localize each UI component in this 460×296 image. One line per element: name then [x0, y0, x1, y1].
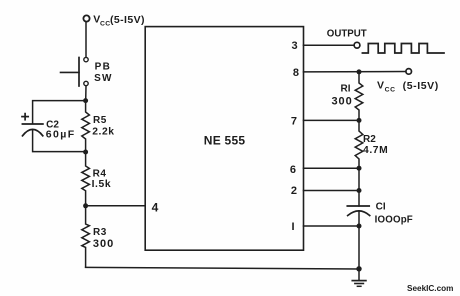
svg-text:8: 8 — [293, 67, 299, 79]
svg-text:CI: CI — [376, 201, 386, 212]
node pin8 junction — [357, 69, 362, 74]
svg-text:RI: RI — [341, 84, 351, 95]
node pin6 junction — [357, 166, 362, 171]
node pin7 junction — [357, 118, 362, 123]
node ground rail junction — [356, 266, 361, 271]
terminal Vcc right — [406, 69, 412, 75]
resistor R5 (2.2k) — [82, 101, 90, 152]
svg-text:IOOOpF: IOOOpF — [375, 214, 413, 225]
svg-text:NE 555: NE 555 — [204, 133, 246, 147]
svg-text:PB: PB — [95, 61, 112, 72]
node B junction R5/R4/C2 — [83, 150, 88, 155]
svg-text:R4: R4 — [93, 168, 107, 179]
svg-text:SeekIC.com: SeekIC.com — [407, 284, 453, 293]
svg-text:3: 3 — [291, 40, 297, 52]
wire bottom rail — [86, 267, 359, 269]
resistor R4 (1.5k) — [82, 152, 90, 206]
svg-text:I: I — [291, 221, 294, 233]
wire node C to pin 4 — [86, 205, 146, 207]
capacitor C1 top plate — [347, 205, 369, 207]
svg-text:300: 300 — [93, 238, 114, 250]
capacitor C1 bottom curved plate — [348, 211, 370, 216]
svg-text:V: V — [377, 79, 384, 91]
svg-text:2: 2 — [291, 185, 297, 197]
svg-text:I.5k: I.5k — [92, 179, 112, 190]
svg-text:4: 4 — [152, 201, 159, 215]
svg-text:R5: R5 — [93, 115, 107, 126]
node A junction below switch — [83, 98, 88, 103]
wire pin 2 — [304, 190, 360, 192]
resistor R1 (300) — [355, 72, 363, 121]
wire pin1 node to ground rail — [358, 226, 360, 269]
wire C1 to pin1 node — [358, 211, 360, 226]
pushbutton switch PB SW — [84, 57, 88, 61]
terminal output — [354, 42, 360, 48]
svg-text:60µF: 60µF — [46, 129, 76, 141]
svg-text:6: 6 — [290, 164, 296, 176]
wire pin2 node to capacitor C1 — [358, 191, 360, 207]
svg-text:R3: R3 — [93, 227, 107, 238]
wire pin 6 — [304, 167, 360, 169]
waveform square wave — [362, 44, 444, 54]
svg-text:R2: R2 — [363, 134, 376, 145]
node C junction pin4 branch — [83, 203, 88, 208]
resistor R2 (4.7M) — [355, 120, 363, 168]
svg-text:7: 7 — [291, 115, 297, 127]
wire switch to node A — [85, 86, 87, 101]
svg-text:CC: CC — [385, 86, 396, 93]
svg-text:2.2k: 2.2k — [92, 127, 114, 138]
wire pin6 node to pin2 node — [358, 168, 360, 190]
wire pin 8 to Vcc terminal — [304, 71, 406, 73]
resistor R3 (300) — [82, 206, 90, 267]
capacitor C2 top plate — [22, 123, 43, 125]
terminal Vcc left — [83, 15, 89, 21]
svg-text:(5-I5V): (5-I5V) — [403, 80, 439, 92]
svg-text:4.7M: 4.7M — [363, 145, 388, 156]
svg-text:SW: SW — [94, 73, 113, 84]
svg-text:(5-I5V): (5-I5V) — [110, 14, 145, 26]
capacitor C2 bottom curved plate — [23, 129, 43, 135]
svg-text:OUTPUT: OUTPUT — [327, 28, 367, 39]
wire pin 1 — [304, 225, 360, 227]
ground symbol — [358, 269, 360, 280]
IC U1 NE 555 body — [145, 27, 303, 251]
wire pin 7 — [304, 119, 360, 121]
wire pin 3 to output terminal — [304, 44, 355, 46]
wire C2 to bottom branch — [33, 131, 86, 152]
wire node A to capacitor C2 branch — [33, 101, 86, 124]
svg-text:300: 300 — [331, 95, 352, 107]
node pin1 junction — [357, 224, 362, 229]
wire Vcc to switch contact — [85, 22, 87, 57]
node pin2 junction — [357, 188, 362, 193]
capacitor C2 plus sign — [22, 116, 28, 118]
